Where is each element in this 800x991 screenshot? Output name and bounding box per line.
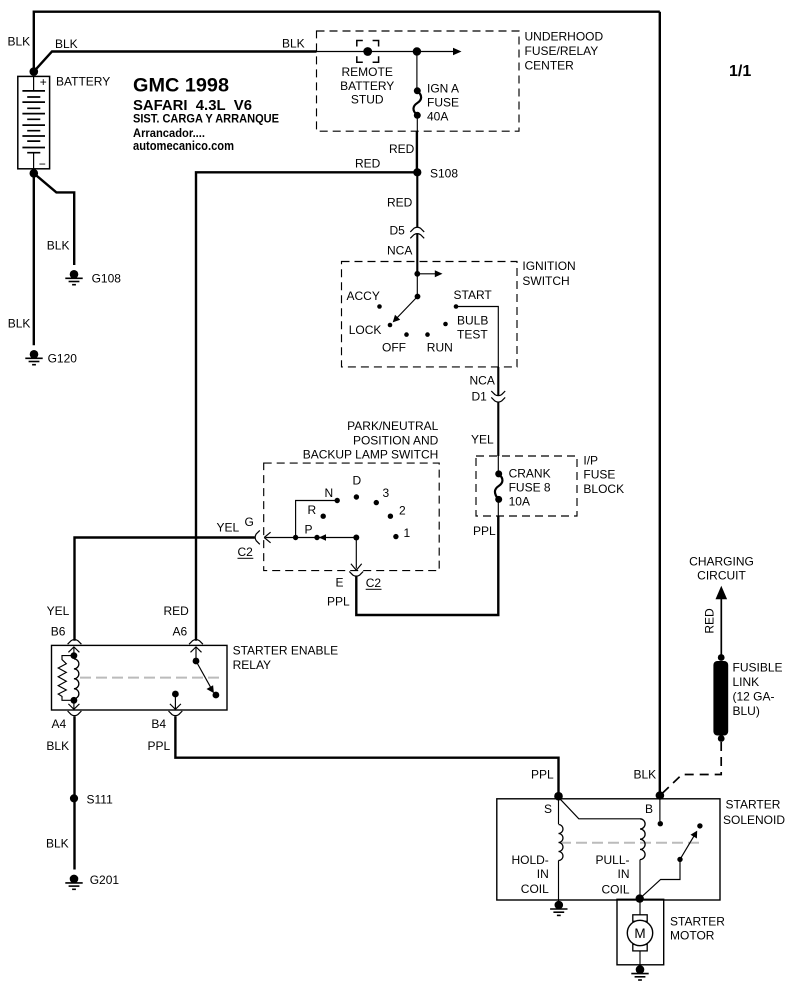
wire S108 left and down to relay A6 [196, 172, 417, 641]
node battery positive [30, 67, 39, 76]
charging circuit arrow [716, 586, 728, 658]
crank fuse 8 10A [495, 456, 503, 516]
hold-in coil [559, 797, 564, 901]
svg-text:CENTER: CENTER [525, 58, 575, 72]
svg-text:POSITION AND: POSITION AND [353, 433, 439, 447]
svg-text:R: R [308, 503, 317, 517]
label FUSIBLE LINK 12GA BLU [733, 661, 783, 719]
wire RED box edge to S108 [416, 131, 418, 172]
svg-text:BACKUP LAMP SWITCH: BACKUP LAMP SWITCH [303, 448, 439, 462]
node solenoid B terminal [656, 791, 665, 800]
label PARK/NEUTRAL POSITION AND BACKUP LAMP SWITCH [303, 419, 439, 462]
svg-text:1/1: 1/1 [729, 63, 751, 80]
svg-text:BLK: BLK [47, 239, 70, 253]
wire BLK battery positive to remote battery stud [34, 52, 317, 72]
connector D5 [410, 227, 424, 238]
wire S108 down to D5 [416, 172, 418, 227]
wire crank fuse down and left to E of PNP switch [356, 516, 498, 615]
solenoid moving contact arm [636, 831, 698, 903]
label I/P FUSE BLOCK [583, 454, 624, 497]
solenoid gray dashed line [560, 842, 700, 844]
svg-text:PULL-: PULL- [595, 853, 629, 867]
relay gray dashed line [80, 677, 223, 679]
svg-text:D1: D1 [472, 390, 488, 404]
svg-text:NCA: NCA [387, 244, 412, 258]
svg-text:BLK: BLK [634, 768, 657, 782]
underhood fuse relay center box [317, 31, 520, 131]
svg-text:IN: IN [618, 867, 630, 881]
wire thin feed through stud with arrow [317, 51, 456, 53]
svg-text:BATTERY: BATTERY [340, 79, 394, 93]
wire START to D1 [456, 307, 498, 368]
svg-text:B6: B6 [51, 624, 66, 638]
node S108 [413, 168, 421, 176]
pull-in coil [559, 797, 646, 898]
svg-text:MOTOR: MOTOR [670, 929, 715, 943]
svg-text:PPL: PPL [327, 595, 350, 609]
remote battery stud [357, 41, 379, 63]
starter motor [627, 899, 652, 966]
svg-text:FUSE: FUSE [583, 468, 615, 482]
relay B6 pin arrow [68, 647, 79, 656]
svg-text:BLK: BLK [8, 35, 31, 49]
svg-text:IGN A: IGN A [427, 82, 459, 96]
park neutral switch box [264, 463, 440, 570]
svg-text:SWITCH: SWITCH [522, 274, 569, 288]
svg-text:SIST. CARGA Y ARRANQUE: SIST. CARGA Y ARRANQUE [133, 112, 279, 126]
ignition switch position dots [377, 304, 458, 337]
svg-text:D5: D5 [390, 224, 406, 238]
svg-text:S: S [544, 802, 552, 816]
svg-text:RED: RED [164, 604, 190, 618]
ground G201 [65, 875, 82, 890]
svg-text:COIL: COIL [521, 882, 549, 896]
svg-text:ACCY: ACCY [347, 289, 380, 303]
wire D5 to ignition switch [416, 233, 418, 274]
connector cap A6 [189, 640, 203, 645]
svg-text:FUSE 8: FUSE 8 [509, 481, 551, 495]
title block [133, 74, 279, 153]
node S111 [70, 794, 78, 802]
svg-text:E: E [336, 576, 344, 590]
dashed wire fusible link to solenoid B [661, 742, 721, 795]
starter motor box [617, 899, 664, 965]
node battery negative [30, 169, 39, 178]
label UNDERHOOD FUSE/RELAY CENTER [525, 30, 604, 73]
connector cap B6 [68, 640, 82, 645]
svg-text:YEL: YEL [471, 432, 494, 446]
fusible link [713, 654, 728, 742]
svg-text:C2: C2 [366, 576, 382, 590]
svg-text:YEL: YEL [217, 521, 240, 535]
svg-text:M: M [634, 926, 645, 941]
svg-text:G: G [245, 515, 254, 529]
solenoid B fixed contact [658, 796, 663, 827]
PNP switch contact dots [293, 494, 399, 540]
label IGNITION SWITCH [522, 259, 575, 288]
svg-text:RUN: RUN [427, 341, 453, 355]
label HOLD-IN COIL [511, 853, 549, 896]
label C2 at G underlined [238, 545, 254, 559]
connector cap B4 [169, 711, 183, 716]
svg-text:BLK: BLK [8, 317, 31, 331]
fuse IGN A 40A [413, 87, 421, 119]
svg-text:B: B [645, 802, 653, 816]
label STARTER ENABLE RELAY [233, 644, 339, 673]
wire wiper junction down to E with arrow [355, 538, 357, 569]
svg-text:PARK/NEUTRAL: PARK/NEUTRAL [347, 419, 438, 433]
battery [18, 75, 50, 171]
svg-text:RED: RED [387, 196, 413, 210]
svg-text:A4: A4 [52, 717, 67, 731]
svg-text:RED: RED [389, 142, 415, 156]
svg-text:UNDERHOOD: UNDERHOOD [525, 30, 604, 44]
svg-text:BLU): BLU) [733, 704, 760, 718]
wire YEL from G to relay B6 [75, 538, 255, 641]
svg-text:RED: RED [703, 608, 717, 634]
PNP switch position labels [305, 474, 411, 541]
wire fuse to underhood box edge [416, 115, 418, 131]
svg-text:FUSE: FUSE [427, 96, 459, 110]
label PULL-IN COIL [595, 853, 629, 896]
svg-text:PPL: PPL [531, 768, 554, 782]
label IGN A FUSE 40A [427, 82, 459, 124]
svg-text:TEST: TEST [457, 328, 488, 342]
ground below starter motor [631, 965, 648, 980]
svg-text:PPL: PPL [148, 739, 171, 753]
svg-text:IGNITION: IGNITION [522, 259, 575, 273]
svg-text:PPL: PPL [473, 524, 496, 538]
solenoid right fixed contact [697, 823, 702, 828]
wire top BLK bus from battery positive to right bus [34, 12, 660, 72]
svg-text:G108: G108 [92, 272, 122, 286]
svg-text:automecanico.com: automecanico.com [133, 139, 234, 153]
relay B4 pin arrow [170, 691, 181, 710]
connector G C2 [255, 530, 260, 544]
PNP switch wiper line with arrows [264, 532, 356, 543]
ignition switch position labels [347, 288, 493, 355]
svg-text:STARTER: STARTER [670, 915, 725, 929]
wire D1 to IP fuse block [497, 402, 499, 456]
label C2 at E underlined [366, 576, 382, 590]
connector cap A4 [68, 711, 82, 716]
svg-text:FUSE/RELAY: FUSE/RELAY [525, 44, 599, 58]
relay coil [58, 652, 79, 704]
svg-text:YEL: YEL [47, 604, 70, 618]
wire battery negative to G120 [33, 173, 35, 345]
label REMOTE BATTERY STUD [340, 65, 394, 106]
svg-text:STARTER ENABLE: STARTER ENABLE [233, 644, 339, 658]
label CRANK FUSE 8 10A [509, 467, 551, 509]
svg-text:N: N [325, 486, 334, 500]
svg-text:BLK: BLK [55, 37, 78, 51]
svg-text:A6: A6 [173, 624, 188, 638]
svg-text:3: 3 [383, 486, 390, 500]
ground G120 [25, 350, 42, 365]
wire junction to fuse [416, 52, 418, 89]
ground G108 [65, 270, 82, 285]
svg-text:BLK: BLK [46, 837, 69, 851]
svg-text:STUD: STUD [351, 92, 384, 106]
connector E C2 [349, 572, 363, 577]
svg-text:B4: B4 [151, 717, 166, 731]
svg-text:LINK: LINK [733, 675, 760, 689]
svg-text:G201: G201 [90, 873, 120, 887]
svg-text:BLK: BLK [46, 739, 69, 753]
starter solenoid box [497, 799, 720, 900]
svg-text:C2: C2 [238, 545, 254, 559]
svg-text:−: − [39, 157, 46, 171]
svg-text:START: START [454, 288, 493, 302]
svg-text:COIL: COIL [601, 882, 629, 896]
svg-text:SOLENOID: SOLENOID [723, 813, 785, 827]
svg-text:FUSIBLE: FUSIBLE [733, 661, 783, 675]
wire battery negative to G108 [34, 173, 74, 265]
svg-text:40A: 40A [427, 110, 448, 124]
relay A6 pin arrow [191, 647, 202, 661]
svg-text:1: 1 [404, 526, 411, 540]
label CHARGING CIRCUIT [689, 555, 754, 583]
svg-text:NCA: NCA [470, 374, 495, 388]
relay contact arm [193, 658, 220, 699]
PNP switch N branch [296, 501, 338, 538]
svg-text:G120: G120 [48, 352, 78, 366]
wire A4 BLK down to G201 [73, 716, 75, 869]
node solenoid S terminal [554, 792, 563, 801]
connector D1 [491, 391, 505, 402]
svg-text:RELAY: RELAY [233, 658, 271, 672]
svg-text:IN: IN [537, 867, 549, 881]
label STARTER SOLENOID [723, 798, 785, 827]
svg-text:Arrancador....: Arrancador.... [133, 126, 205, 140]
wire right bus down to starter solenoid B [659, 12, 661, 796]
label STARTER MOTOR [670, 915, 725, 943]
svg-text:OFF: OFF [382, 341, 406, 355]
starter enable relay box [52, 645, 228, 710]
svg-text:P: P [305, 523, 313, 537]
ground below hold-in coil [550, 901, 567, 916]
svg-text:10A: 10A [509, 495, 530, 509]
svg-text:CIRCUIT: CIRCUIT [697, 569, 746, 583]
ignition switch box [342, 262, 518, 367]
svg-text:CHARGING: CHARGING [689, 555, 754, 569]
svg-text:2: 2 [399, 504, 406, 518]
IP fuse block box [476, 456, 577, 516]
svg-text:S111: S111 [87, 793, 114, 807]
ignition switch internals [393, 270, 443, 322]
svg-text:+: + [40, 75, 47, 89]
svg-text:S108: S108 [430, 167, 458, 181]
svg-text:HOLD-: HOLD- [511, 853, 548, 867]
node junction above IGN A fuse [413, 47, 421, 55]
svg-text:LOCK: LOCK [349, 323, 382, 337]
wire B4 PPL to solenoid S [175, 716, 558, 795]
svg-text:BLK: BLK [282, 37, 305, 51]
svg-text:REMOTE: REMOTE [342, 65, 393, 79]
svg-text:D: D [353, 474, 362, 488]
svg-text:(12 GA-: (12 GA- [733, 690, 775, 704]
svg-text:BULB: BULB [457, 314, 488, 328]
svg-text:BATTERY: BATTERY [56, 75, 110, 89]
svg-text:BLOCK: BLOCK [583, 482, 624, 496]
svg-text:STARTER: STARTER [726, 798, 781, 812]
relay A4 pin arrow [68, 700, 79, 709]
svg-text:CRANK: CRANK [509, 467, 551, 481]
svg-text:I/P: I/P [583, 454, 598, 468]
svg-text:RED: RED [355, 157, 381, 171]
svg-text:GMC 1998: GMC 1998 [133, 74, 229, 96]
